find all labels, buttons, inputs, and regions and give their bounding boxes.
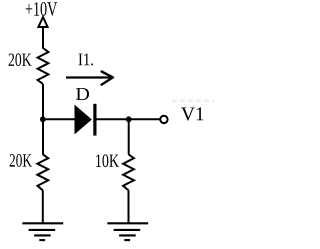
junction node A <box>40 116 46 122</box>
wire R2 to ground <box>42 190 44 223</box>
wire diode cathode to V1 terminal <box>97 118 160 120</box>
wire from +10V terminal to resistor R1 <box>42 26 44 49</box>
resistor R2 20K (bottom left) <box>37 154 48 190</box>
current arrow I1 <box>66 72 113 85</box>
junction node B <box>126 116 132 122</box>
resistor R3 10K <box>123 154 134 190</box>
output terminal V1 circle <box>160 116 167 123</box>
resistor R2 value label 20K <box>10 154 32 167</box>
ground (right) <box>107 223 148 240</box>
resistor R1 20K (top) <box>38 48 49 84</box>
wire from R1 down to node A <box>42 84 44 155</box>
wire R3 to ground <box>128 190 130 223</box>
ground (left) <box>22 223 63 240</box>
current I1 label <box>79 54 94 66</box>
power supply terminal symbol <box>38 17 47 27</box>
diode D label <box>76 88 89 100</box>
resistor R3 value label 10K <box>96 154 119 167</box>
faint watermark streak <box>172 99 214 103</box>
wire node A to diode anode <box>43 118 75 120</box>
resistor R1 value label 20K <box>9 53 32 66</box>
diode D cathode bar <box>93 104 96 136</box>
diode D triangle <box>75 105 92 135</box>
node +10V label <box>26 2 57 16</box>
wire node B down to resistor R3 <box>128 119 130 154</box>
output V1 label <box>181 107 203 120</box>
